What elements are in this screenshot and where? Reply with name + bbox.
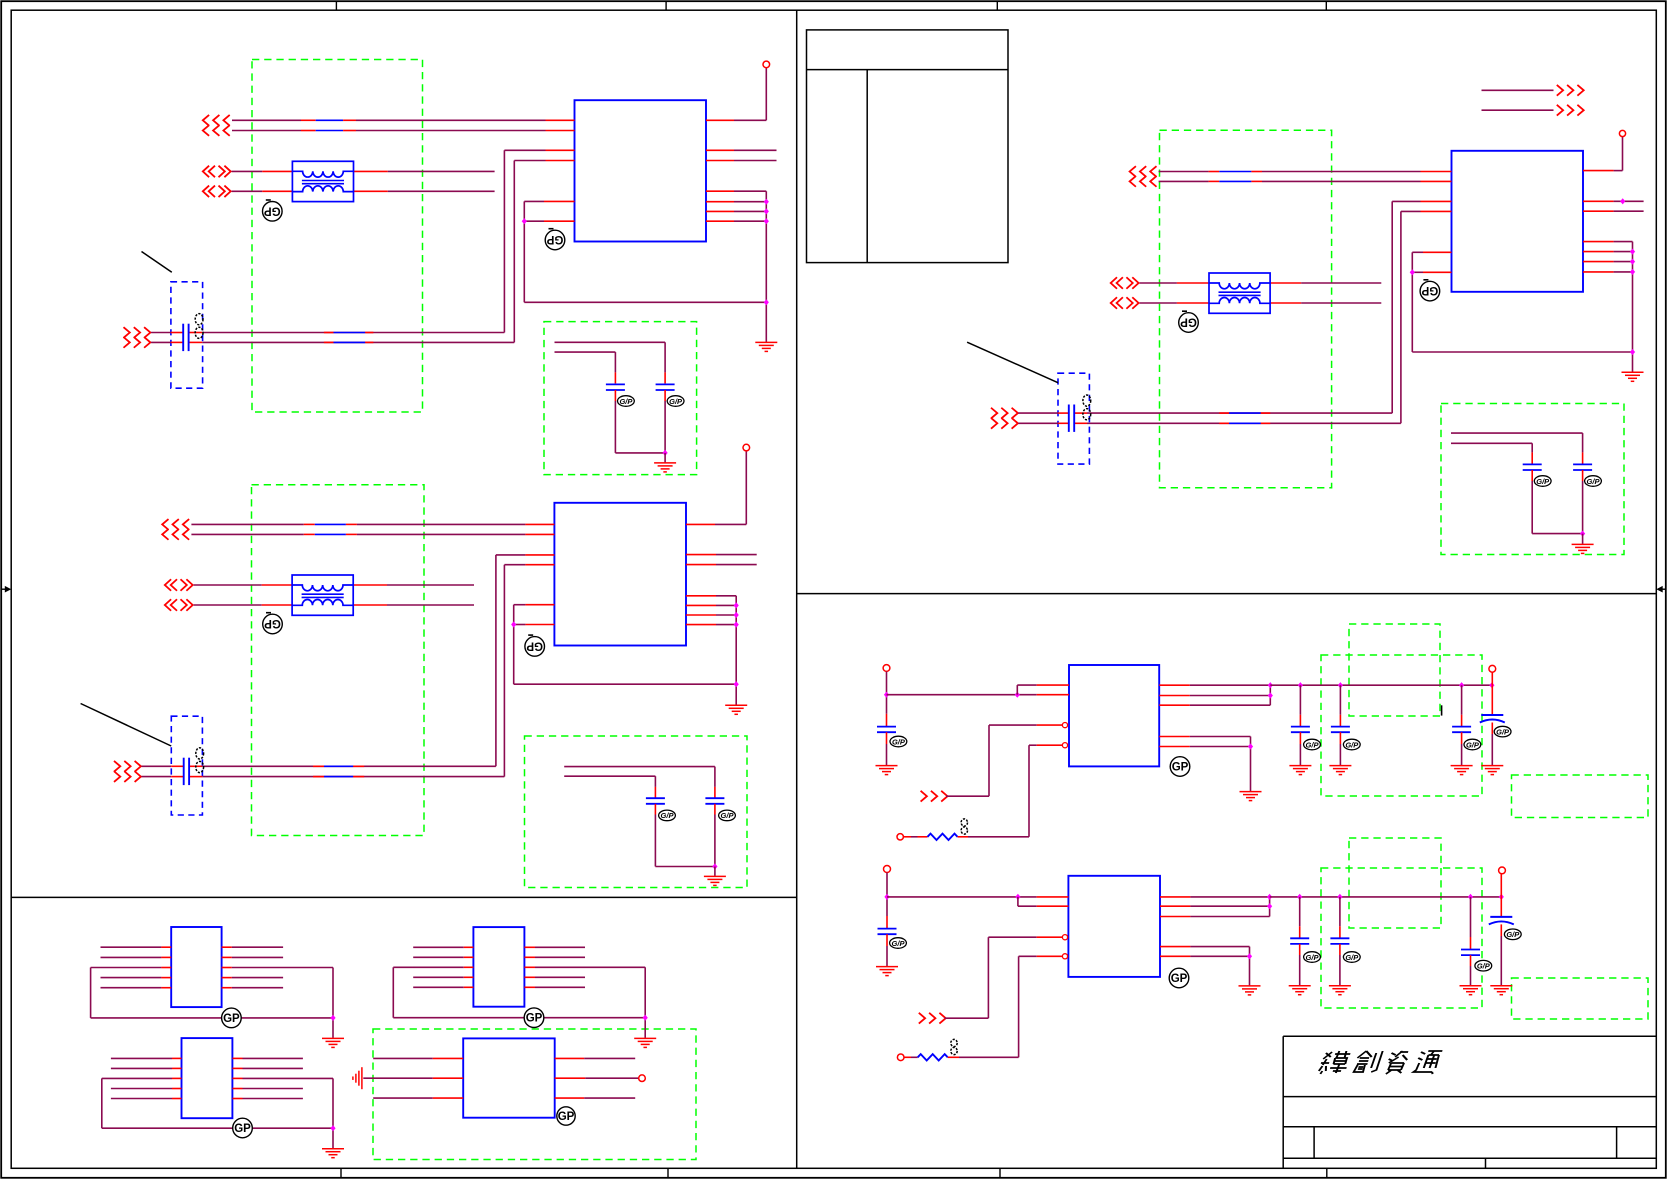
svg-text:GP: GP xyxy=(1180,316,1197,328)
svg-text:G/P: G/P xyxy=(1345,740,1359,749)
svg-text:G/P: G/P xyxy=(1306,740,1320,749)
svg-text:G/P: G/P xyxy=(1466,740,1480,749)
svg-text:G/P: G/P xyxy=(669,397,683,406)
svg-text:GP: GP xyxy=(223,1013,240,1025)
svg-text:GP: GP xyxy=(1421,284,1438,296)
svg-text:G/P: G/P xyxy=(619,397,633,406)
svg-text:G/P: G/P xyxy=(1506,930,1520,939)
svg-text:G/P: G/P xyxy=(892,737,906,746)
svg-text:GP: GP xyxy=(264,204,281,216)
svg-text:GP: GP xyxy=(558,1111,575,1123)
svg-text:GP: GP xyxy=(264,617,281,629)
svg-text:G/P: G/P xyxy=(1306,953,1320,962)
svg-text:G/P: G/P xyxy=(1496,727,1510,736)
svg-text:G/P: G/P xyxy=(1536,477,1550,486)
svg-text:GP: GP xyxy=(1171,973,1188,985)
svg-text:GP: GP xyxy=(234,1123,251,1135)
svg-text:G/P: G/P xyxy=(721,811,735,820)
svg-text:GP: GP xyxy=(1172,762,1189,774)
svg-text:GP: GP xyxy=(526,639,543,651)
svg-text:G/P: G/P xyxy=(661,811,675,820)
svg-text:G/P: G/P xyxy=(1477,962,1491,971)
svg-text:GP: GP xyxy=(546,233,563,245)
svg-text:GP: GP xyxy=(526,1013,543,1025)
svg-text:G/P: G/P xyxy=(1345,953,1359,962)
svg-text:G/P: G/P xyxy=(1587,477,1601,486)
svg-text:G/P: G/P xyxy=(892,939,906,948)
